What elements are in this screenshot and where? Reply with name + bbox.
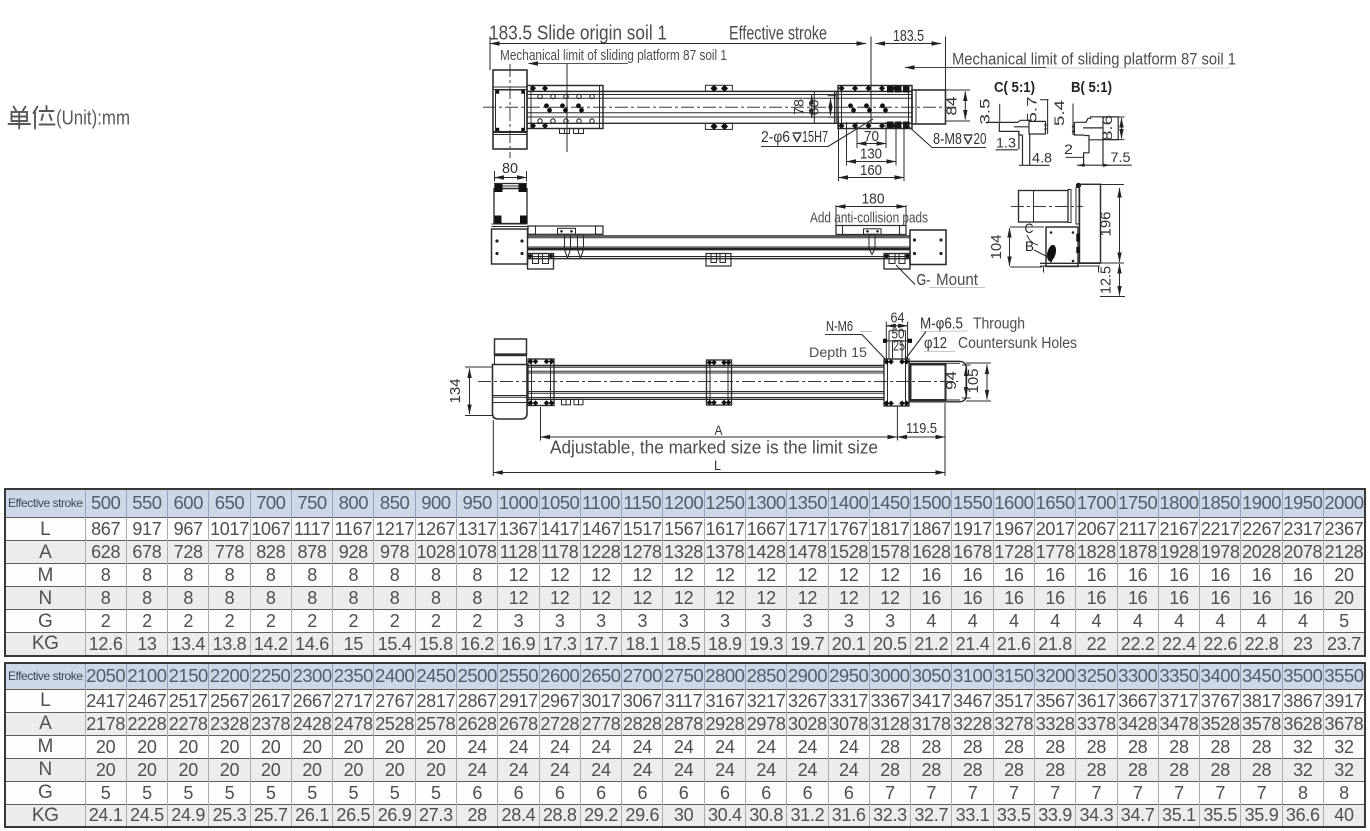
top view: mid rail clamps	[705, 85, 732, 91]
side view: right carriage plate + pad	[836, 226, 906, 235]
top view: motor centerline	[509, 64, 511, 158]
bottom view: small tabs	[562, 399, 571, 405]
svg-text:M-φ6.5: M-φ6.5	[920, 316, 963, 333]
svg-text:C: C	[1025, 220, 1034, 236]
svg-text:119.5: 119.5	[906, 420, 937, 437]
svg-text:2-φ6: 2-φ6	[761, 129, 790, 146]
top view: right end block	[912, 90, 946, 124]
svg-text:5.7: 5.7	[1025, 97, 1040, 123]
dim 12.5 (end view)	[1119, 264, 1121, 296]
svg-text:Depth 15: Depth 15	[809, 345, 867, 360]
end view: column	[1080, 184, 1101, 263]
end view: flange plates	[1068, 190, 1071, 223]
svg-text:180: 180	[862, 191, 885, 208]
svg-text:15H7: 15H7	[802, 129, 828, 146]
svg-text:L: L	[714, 457, 721, 473]
side view: base housing	[492, 223, 528, 225]
dim 70 (top view)	[856, 122, 858, 148]
dim 130 (top view)	[846, 122, 848, 166]
svg-text:4.8: 4.8	[1032, 150, 1052, 166]
svg-text:64: 64	[891, 311, 905, 327]
end view: motor	[1019, 191, 1069, 223]
svg-text:78: 78	[791, 99, 807, 115]
svg-text:1.3: 1.3	[996, 135, 1016, 151]
label G- Mount	[896, 265, 915, 285]
bottom view: rail	[527, 365, 884, 367]
svg-text:Countersunk Holes: Countersunk Holes	[958, 335, 1077, 352]
svg-text:8-M8: 8-M8	[933, 131, 962, 148]
top view: motor block	[493, 70, 527, 149]
svg-text:160: 160	[860, 162, 882, 179]
svg-text:(Unit):mm: (Unit):mm	[56, 107, 130, 130]
svg-text:G-: G-	[917, 272, 931, 289]
side view: anti-collision pins left	[565, 235, 571, 250]
svg-text:Mechanical limit of sliding pl: Mechanical limit of sliding platform 87 …	[952, 50, 1236, 69]
end view: slider block	[1046, 227, 1078, 267]
svg-text:183.5: 183.5	[893, 28, 924, 45]
detail C profile	[986, 120, 1050, 165]
dim 104 (end view)	[1009, 228, 1011, 266]
svg-text:Through: Through	[973, 316, 1025, 333]
svg-text:3.5: 3.5	[978, 99, 993, 125]
svg-text:196: 196	[1098, 212, 1115, 237]
side view: left carriage plate	[528, 226, 603, 234]
svg-text:8.6: 8.6	[1100, 115, 1115, 141]
svg-text:C( 5:1): C( 5:1)	[994, 80, 1035, 96]
svg-text:Mechanical limit of sliding pl: Mechanical limit of sliding platform 87 …	[500, 48, 727, 64]
svg-text:2: 2	[1064, 141, 1073, 157]
svg-text:84: 84	[944, 97, 961, 116]
svg-text:130: 130	[860, 146, 882, 163]
side view: feet	[528, 254, 554, 270]
svg-text:B: B	[1025, 238, 1034, 254]
svg-text:φ12: φ12	[924, 335, 947, 352]
dim 196 (end view)	[1119, 188, 1121, 262]
top view: left carriage	[527, 86, 603, 129]
svg-text:183.5 Slide origin soil 1: 183.5 Slide origin soil 1	[489, 23, 667, 45]
svg-text:105: 105	[965, 369, 982, 394]
side view: motor	[494, 183, 527, 185]
svg-text:Adjustable, the marked size is: Adjustable, the marked size is the limit…	[550, 437, 878, 458]
top view: sensor tabs under left carriage	[560, 129, 570, 134]
dim 84 (top view)	[946, 89, 970, 91]
top dimension line: 183.5	[876, 43, 942, 45]
top dimension line: effective stroke	[490, 43, 866, 45]
svg-text:94: 94	[943, 371, 960, 390]
bottom view: mid support	[707, 360, 732, 405]
side view: rail	[528, 235, 911, 237]
dim 105 (bottom view)	[986, 365, 988, 400]
dim 160 (top view)	[838, 117, 840, 181]
svg-text:20: 20	[974, 131, 987, 148]
svg-text:Mount: Mount	[936, 270, 978, 289]
svg-text:60: 60	[806, 99, 822, 115]
bottom view: motor	[495, 339, 527, 356]
top view: rail body	[527, 90, 912, 92]
detail B profile	[1074, 117, 1131, 165]
end view: base lines	[1040, 262, 1100, 264]
extension lines for top dims	[489, 37, 491, 71]
side view: right end block	[910, 230, 946, 265]
leader under left mechanical limit	[529, 63, 629, 65]
bottom view: right carriage	[884, 359, 909, 406]
svg-text:7.5: 7.5	[1111, 149, 1131, 165]
svg-text:Add anti-collision pads: Add anti-collision pads	[810, 210, 928, 227]
bottom view: right end assembly	[909, 361, 967, 402]
svg-text:N-M6: N-M6	[826, 318, 853, 335]
dim 94 (bottom view)	[965, 367, 967, 397]
svg-text:B( 5:1): B( 5:1)	[1071, 80, 1112, 96]
svg-text:Effective stroke: Effective stroke	[729, 24, 827, 45]
top view: right carriage	[838, 86, 912, 129]
svg-text:12.5: 12.5	[1098, 266, 1115, 294]
leader under right mechanical limit	[905, 67, 1046, 69]
bottom view: left carriage	[528, 359, 554, 406]
svg-text:134: 134	[447, 379, 464, 404]
unit label 单位(Unit):mm	[9, 106, 55, 129]
svg-text:80: 80	[502, 160, 518, 177]
svg-text:5.4: 5.4	[1052, 99, 1067, 126]
svg-text:70: 70	[864, 128, 879, 145]
svg-text:104: 104	[988, 235, 1005, 260]
top view: main centerline	[483, 106, 956, 108]
dim 134 (bottom view)	[469, 369, 471, 415]
